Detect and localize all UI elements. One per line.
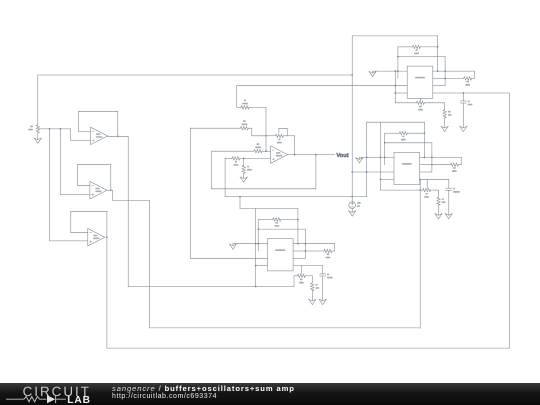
ground <box>309 299 316 304</box>
wire pin4 stub <box>256 265 268 267</box>
resistor R10 lead <box>258 219 273 221</box>
wire feedback loop op1 <box>78 111 118 136</box>
resistor R18 <box>240 127 248 130</box>
wire feedback loop op2 <box>78 164 111 190</box>
wire <box>433 77 445 79</box>
ground <box>460 126 467 131</box>
wire <box>460 157 462 164</box>
wire op1 output drop <box>127 136 129 286</box>
wire <box>444 103 446 110</box>
wire <box>37 75 39 125</box>
wire <box>211 151 213 189</box>
wire <box>444 118 446 127</box>
wire <box>385 142 432 144</box>
wire to 555 C pin3 <box>190 257 267 259</box>
ground near U3 <box>229 244 236 249</box>
resistor R3 lead <box>225 157 232 159</box>
wire op3 bus <box>107 347 510 349</box>
svg-text:LAB: LAB <box>67 395 91 405</box>
ground under battery <box>349 211 356 216</box>
wire <box>433 85 445 87</box>
svg-text:Vout: Vout <box>336 153 348 159</box>
resistor R7 lead <box>385 132 400 134</box>
wire right-edge riser <box>508 93 510 348</box>
wire <box>59 129 61 195</box>
wire <box>462 103 464 127</box>
wire pin4 stub <box>381 178 395 180</box>
resistor R9 <box>437 197 440 205</box>
wire <box>293 243 335 245</box>
wire <box>257 220 259 252</box>
wire <box>420 164 432 166</box>
wire <box>433 92 510 94</box>
wire riser to op2 bus <box>419 179 421 328</box>
battery V1 5V <box>349 202 356 209</box>
wire VCC rail <box>351 36 353 202</box>
wire <box>49 129 51 241</box>
op-amp OA1 buffer 1 <box>91 127 108 144</box>
555 timer IC U3 <box>268 239 294 271</box>
wire <box>373 70 408 72</box>
wire <box>322 276 324 300</box>
wire <box>366 122 368 197</box>
wire Vout <box>288 154 335 156</box>
resistor R2 <box>311 283 314 291</box>
ground <box>435 214 442 219</box>
wire <box>70 129 72 141</box>
555 timer IC U1 <box>407 66 433 98</box>
resistor R10 <box>273 218 281 221</box>
CircuitLab logo <box>0 383 110 405</box>
op-amp OA2 buffer 2 <box>90 182 107 199</box>
wire <box>311 291 313 300</box>
potentiometer R13 <box>294 275 297 277</box>
wire op2 output route <box>113 190 150 328</box>
wire <box>212 188 316 190</box>
wire <box>420 171 432 173</box>
ground near U2 <box>356 158 363 163</box>
wire <box>243 173 245 178</box>
resistor R4 feedback <box>275 134 283 137</box>
wire <box>255 209 257 287</box>
wire pot wiper stub <box>300 266 302 275</box>
wire <box>243 158 245 165</box>
wire <box>224 158 226 196</box>
op-amp OA4 summing amp <box>271 146 288 163</box>
ground <box>319 299 326 304</box>
wire <box>315 155 317 189</box>
wire reference net <box>225 196 367 198</box>
wire <box>394 71 396 103</box>
wire op2 bus <box>150 327 421 329</box>
wire <box>293 257 305 259</box>
resistor R4 lead <box>266 135 275 137</box>
resistor R1 lead <box>237 106 241 108</box>
wire top loop of U2 <box>367 121 425 123</box>
resistor R6 <box>413 45 421 48</box>
wire <box>420 156 462 158</box>
resistor R19 lead <box>212 150 254 152</box>
wire <box>297 209 299 244</box>
wire pot wiper stub <box>420 98 422 101</box>
wire <box>438 205 440 214</box>
resistor R1 <box>241 106 249 109</box>
wire <box>438 190 440 197</box>
ground <box>445 214 452 219</box>
wire top distribution net <box>38 74 352 76</box>
wire <box>294 136 296 155</box>
wire to op1 + input <box>71 139 91 141</box>
wire op1 output <box>108 135 129 137</box>
wire <box>37 133 39 139</box>
wire <box>431 143 433 172</box>
wire <box>423 122 425 157</box>
wire <box>334 244 336 251</box>
wire <box>236 86 238 108</box>
wire <box>233 243 268 245</box>
wire op3 output drop <box>106 237 108 348</box>
resistor R15 <box>450 163 458 166</box>
wire <box>444 57 446 86</box>
wire <box>293 250 305 252</box>
555 timer IC U2 <box>394 152 420 184</box>
resistor R19 <box>254 150 262 153</box>
potentiometer R11 <box>395 102 416 104</box>
resistor R3 <box>232 157 240 160</box>
ground <box>441 126 448 131</box>
resistor R5 <box>242 165 245 173</box>
wire <box>304 229 306 258</box>
wire pin4 stub <box>395 92 407 94</box>
wire to op3 + input <box>50 240 88 242</box>
wire pot wiper stub <box>426 179 428 188</box>
wire <box>397 47 399 79</box>
capacitor C5 <box>462 93 464 101</box>
resistor R7 <box>399 132 407 135</box>
wire top loop of U1 <box>352 35 437 37</box>
wire to op2 + input <box>60 194 90 196</box>
resistor R17 <box>36 125 39 133</box>
wire node row <box>38 128 71 130</box>
op-amp OA3 buffer 3 <box>88 229 105 246</box>
wire <box>248 128 266 136</box>
wire feedback loop op3 <box>71 211 107 237</box>
wire from rail to 555 B pin3 <box>352 171 394 173</box>
ground near U1 <box>369 71 376 76</box>
wire <box>448 190 450 214</box>
wire <box>398 56 445 58</box>
wire <box>473 71 475 78</box>
wire <box>190 127 240 129</box>
wire 555 A output net <box>237 85 408 87</box>
resistor R16 <box>464 77 472 80</box>
wire riser into R13 <box>293 276 295 287</box>
capacitor C4 <box>448 179 450 188</box>
wire <box>293 265 323 267</box>
wire <box>189 128 191 258</box>
wire <box>265 107 267 151</box>
wire op2 output <box>107 189 113 191</box>
wire <box>311 276 313 283</box>
resistor R6 lead <box>398 46 413 48</box>
wire <box>420 178 449 180</box>
resistor R16 lead <box>445 77 464 79</box>
wire <box>384 133 386 165</box>
resistor R14 <box>324 249 332 252</box>
wire op1 bus <box>128 286 294 288</box>
wire <box>359 156 394 158</box>
resistor R14 lead <box>305 250 324 252</box>
wire feedback hop <box>279 128 287 136</box>
capacitor C3 <box>322 266 324 274</box>
wire <box>258 228 305 230</box>
wire <box>380 122 382 190</box>
potentiometer R8 <box>381 189 423 191</box>
resistor R12 <box>443 110 446 118</box>
wire <box>239 197 241 209</box>
wire <box>437 36 439 71</box>
ground <box>240 177 247 182</box>
wire top loop of U3 <box>240 208 298 210</box>
wire <box>433 70 475 72</box>
ground <box>34 138 41 143</box>
resistor R15 lead <box>432 164 451 166</box>
